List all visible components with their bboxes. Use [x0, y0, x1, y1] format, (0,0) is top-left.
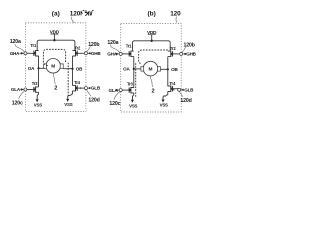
svg-text:OB: OB	[76, 66, 83, 71]
svg-text:2: 2	[54, 86, 57, 92]
svg-text:Tr2: Tr2	[75, 45, 82, 50]
svg-text:VSS: VSS	[129, 103, 137, 108]
wire: Tr4 source to VSS (circuit b)	[163, 92, 168, 100]
input port GLB (circuit b)	[173, 87, 194, 92]
leader from 120 to box (circuit b)	[175, 17, 178, 23]
wire: Tr3 source to VSS (circuit a)	[37, 92, 38, 99]
ground VSS left (circuit a)	[34, 99, 42, 108]
power supply VDD (circuit b)	[147, 30, 157, 41]
motor M (reference 2) (circuit a)	[44, 59, 64, 74]
ground VSS left (circuit b)	[129, 100, 137, 109]
node OA (circuit b)	[123, 67, 142, 72]
transistor Tr3 (circuit b)	[122, 82, 134, 94]
transistor Tr2 (circuit a)	[73, 45, 84, 56]
svg-text:GLB: GLB	[91, 86, 101, 91]
input port GLA (circuit a)	[11, 87, 27, 92]
svg-text:(a): (a)	[52, 11, 60, 18]
current path arrow (circuit a): through motor left-to-right	[43, 49, 65, 65]
label 120d with leader (circuit a)	[87, 90, 100, 103]
wire: Tr3 source to VSS (circuit b)	[133, 93, 134, 100]
svg-text:Tr1: Tr1	[126, 43, 133, 48]
driver block 120 dashed box (circuit b)	[121, 24, 182, 113]
power supply VDD (circuit a)	[50, 29, 60, 40]
katakana text doraiba (driver)	[81, 10, 93, 16]
input port GHB (circuit a)	[84, 51, 101, 56]
label 2 with leader to motor (circuit b)	[151, 76, 155, 94]
svg-text:(b): (b)	[148, 11, 156, 18]
svg-text:2: 2	[152, 88, 155, 94]
current path arrow (circuit a): OB side down to VSS	[67, 63, 69, 98]
svg-text:Tr2: Tr2	[170, 46, 177, 51]
label 120b with leader (circuit a)	[87, 42, 100, 52]
wire: Tr2 drain to node OB (circuit a)	[72, 56, 74, 69]
transistor Tr4 (circuit b)	[168, 81, 180, 92]
svg-text:OB: OB	[171, 67, 178, 72]
node OA (circuit a)	[28, 66, 45, 71]
driver block 120 dashed box (circuit a)	[25, 23, 86, 112]
svg-text:GHB: GHB	[186, 52, 196, 57]
svg-text:VSS: VSS	[160, 103, 168, 108]
svg-text:Tr3: Tr3	[127, 82, 134, 87]
svg-text:Tr3: Tr3	[32, 81, 39, 86]
svg-text:120: 120	[170, 11, 181, 18]
svg-text:GLA: GLA	[11, 87, 21, 92]
svg-text:GLB: GLB	[184, 87, 194, 92]
svg-text:M: M	[51, 64, 55, 70]
label 120c with leader (circuit b)	[109, 92, 120, 107]
ground VSS right (circuit b)	[160, 100, 168, 108]
wire: Tr1 drain to node OA (circuit a)	[38, 56, 40, 68]
svg-text:120a: 120a	[107, 40, 118, 46]
svg-text:Tr4: Tr4	[169, 81, 176, 86]
wire: node OB down to Tr4 (circuit b)	[167, 69, 169, 86]
input port GHB (circuit b)	[180, 52, 197, 57]
label 120d with leader (circuit b)	[179, 91, 192, 104]
svg-text:120d: 120d	[180, 98, 191, 104]
motor M (reference 2) (circuit b)	[141, 61, 161, 76]
wire: node OA down to Tr3 (circuit b)	[133, 69, 135, 88]
label 120a with leader (circuit b)	[107, 40, 119, 53]
junction node at VDD rail (circuit b)	[151, 40, 153, 42]
label 120c with leader (circuit a)	[12, 91, 24, 106]
svg-text:GHA: GHA	[10, 51, 20, 56]
wire: VDD top rail (circuit a)	[37, 40, 75, 50]
svg-text:120a: 120a	[10, 39, 21, 45]
input port GHA (circuit b)	[107, 52, 122, 57]
label 2 with leader to motor (circuit a)	[53, 73, 57, 91]
svg-text:120c: 120c	[12, 100, 23, 106]
leader from 120 to box (circuit a)	[71, 17, 74, 23]
svg-text:120d: 120d	[88, 97, 99, 103]
svg-text:120: 120	[70, 11, 81, 18]
wire: VDD top rail (circuit b)	[133, 41, 171, 51]
svg-text:VSS: VSS	[64, 102, 72, 107]
svg-text:VSS: VSS	[34, 103, 42, 108]
wire: node OA down to Tr3 (circuit a)	[38, 68, 40, 87]
transistor Tr4 (circuit a)	[73, 80, 85, 91]
junction node at VDD rail (circuit a)	[53, 39, 55, 41]
wire: Tr1 drain to node OA (circuit b)	[133, 57, 135, 69]
transistor Tr3 (circuit a)	[27, 81, 39, 93]
transistor Tr1 (circuit b)	[122, 43, 134, 57]
label 120b with leader (circuit b)	[182, 42, 195, 52]
current path arrow (circuit b): OA side down to VSS	[135, 63, 137, 98]
wire: Tr2 drain to node OB (circuit b)	[167, 57, 169, 70]
label 120 driver (circuit a)	[70, 11, 81, 18]
wire: Tr4 source to VSS (circuit a)	[68, 91, 73, 99]
wire: node OB down to Tr4 (circuit a)	[72, 69, 74, 86]
svg-text:Tr1: Tr1	[30, 43, 37, 48]
input port GHA (circuit a)	[10, 51, 27, 56]
svg-text:Tr4: Tr4	[74, 80, 81, 85]
svg-text:M: M	[149, 66, 153, 72]
input port GLA (circuit b)	[108, 88, 122, 93]
current path arrow (circuit b): from Tr2 across top to motor left brush	[139, 50, 168, 64]
svg-text:OA: OA	[28, 66, 35, 71]
ground VSS right (circuit a)	[64, 99, 72, 107]
transistor Tr1 (circuit a)	[27, 43, 39, 57]
node OB (circuit a)	[63, 66, 83, 71]
svg-text:OA: OA	[123, 67, 130, 72]
input port GLB (circuit a)	[79, 86, 100, 91]
node OB (circuit b)	[161, 67, 179, 72]
svg-text:120c: 120c	[109, 101, 120, 107]
svg-text:GHB: GHB	[91, 51, 101, 56]
label 120a with leader (circuit a)	[10, 39, 24, 52]
transistor Tr2 (circuit b)	[168, 46, 179, 57]
